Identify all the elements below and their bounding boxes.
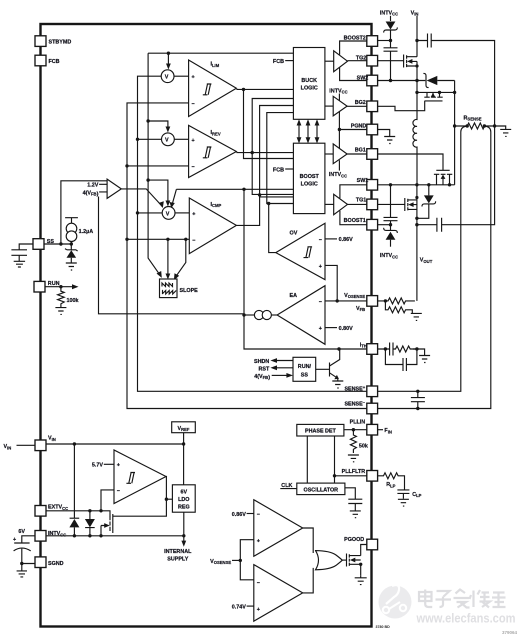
node SW2 bootstrap bbox=[389, 79, 392, 82]
pin BOOST1 bbox=[344, 218, 378, 230]
node ICMP riser crossing bbox=[258, 193, 261, 196]
svg-text:CLP: CLP bbox=[412, 492, 421, 498]
label FCB boost bbox=[273, 167, 293, 173]
wire SS row bbox=[44, 243, 71, 245]
node EA branch bbox=[242, 188, 245, 191]
svg-text:LOGIC: LOGIC bbox=[301, 86, 318, 92]
pin VIN bbox=[35, 436, 56, 451]
buffer min selector bbox=[83, 179, 122, 198]
svg-text:VOSENSE: VOSENSE bbox=[344, 293, 365, 299]
wire pgood high plus bbox=[240, 540, 254, 580]
transistor M2 BG2 switch bbox=[378, 92, 443, 110]
driver TG1 bbox=[325, 194, 367, 214]
node RSENSE kelvin left bbox=[466, 124, 469, 127]
resistor RSENSE bbox=[455, 115, 494, 129]
svg-text:ITH: ITH bbox=[360, 342, 367, 348]
node M5 drain bbox=[415, 196, 418, 199]
svg-text:+: + bbox=[192, 138, 195, 144]
node VIN diode column bbox=[73, 442, 76, 445]
pin BG1 bbox=[355, 148, 378, 160]
wire kelvin SENSE+ bbox=[378, 126, 468, 391]
wire buck-boost arrow 3 bbox=[315, 119, 320, 143]
label 0.86V OV threshold bbox=[325, 237, 353, 243]
source V offset ICMP bbox=[138, 207, 190, 220]
wire gate to mosfet bbox=[342, 559, 347, 561]
node SW1 M3 source bbox=[448, 183, 451, 186]
label 4VFB arrow bbox=[254, 373, 293, 381]
svg-text:379064: 379064 bbox=[502, 630, 518, 635]
pin TG1 bbox=[356, 198, 378, 210]
svg-text:SS: SS bbox=[301, 373, 309, 379]
node SENSE- bus IREV tap bbox=[125, 164, 128, 167]
svg-text:−: − bbox=[257, 580, 260, 586]
label CLK bbox=[280, 483, 297, 489]
svg-text:ILIM: ILIM bbox=[211, 62, 220, 68]
node VOSENSE divider tap bbox=[384, 299, 387, 302]
svg-text:6V: 6V bbox=[18, 529, 25, 535]
pin BOOST2 bbox=[344, 35, 378, 46]
svg-text:PGND: PGND bbox=[351, 124, 367, 130]
node M1 source bbox=[415, 64, 418, 67]
node VOSENSE pgood bbox=[239, 559, 242, 562]
resistor VOSENSE bottom (to GND) bbox=[385, 301, 412, 314]
svg-text:0.74V: 0.74V bbox=[232, 605, 246, 611]
wire VOUT column bbox=[416, 185, 418, 301]
node arrow feed ILIM bbox=[167, 52, 170, 55]
svg-text:0.80V: 0.80V bbox=[339, 326, 353, 332]
driver BG1 bbox=[325, 130, 367, 179]
driver TG2 bbox=[325, 51, 367, 72]
svg-text:RUN/: RUN/ bbox=[298, 364, 312, 370]
pin PLLFLTR bbox=[342, 469, 378, 481]
label RST arrow bbox=[259, 365, 293, 372]
svg-text:BUCK: BUCK bbox=[301, 78, 317, 84]
svg-text:ICMP: ICMP bbox=[211, 202, 222, 208]
svg-text:VIN: VIN bbox=[48, 436, 56, 443]
label VOSENSE pgood bbox=[210, 559, 240, 565]
op-amp IREV comparator bbox=[189, 125, 237, 177]
label 0.74V pgood bbox=[232, 605, 254, 611]
pin SENSE- bbox=[344, 400, 377, 414]
svg-text:INTVCC: INTVCC bbox=[329, 172, 347, 178]
svg-text:INTVCC: INTVCC bbox=[380, 10, 398, 16]
node slope right tap bbox=[184, 238, 187, 241]
svg-text:PLLIN: PLLIN bbox=[350, 419, 366, 425]
capacitor VIN bypass bbox=[417, 34, 495, 127]
svg-text:VIN: VIN bbox=[411, 10, 419, 16]
ground ITH network bbox=[419, 356, 430, 363]
wire ILIM output row bbox=[236, 88, 293, 90]
node PLLFLTR tap bbox=[333, 474, 336, 477]
capacitor bootstrap 1 bbox=[384, 185, 398, 225]
svg-text:+: + bbox=[319, 264, 322, 270]
wire ICMP feedback row bbox=[176, 188, 293, 190]
node ILIM out bbox=[242, 88, 245, 91]
label INTVCC top bbox=[380, 10, 398, 21]
transistor EXTVCC switch bbox=[101, 477, 166, 536]
wire arrow N into ICMP source bbox=[148, 180, 170, 206]
wire BUCK-BOOST link L2 bbox=[260, 106, 294, 197]
wire BUCK-BOOST link L1 bbox=[252, 99, 293, 195]
svg-text:FCB: FCB bbox=[273, 59, 284, 65]
transistor M1 TG2 switch bbox=[378, 41, 417, 81]
capacitor oscillator bbox=[348, 499, 362, 511]
ground RSENSE bbox=[495, 126, 512, 136]
pin VOSENSE bbox=[344, 293, 377, 312]
wire PLLFLTR row bbox=[335, 475, 367, 477]
resistor VOSENSE top (to VOUT) bbox=[378, 298, 415, 304]
node SW1 column bbox=[415, 183, 418, 186]
SECTION: right pin column bbox=[342, 35, 378, 549]
wire VIN diode column bbox=[73, 444, 75, 518]
svg-text:VFB: VFB bbox=[356, 306, 365, 312]
wire IREV output row bbox=[236, 152, 293, 154]
block BOOST LOGIC bbox=[293, 143, 325, 213]
node SENSE- bus ICMP tap bbox=[125, 238, 128, 241]
wire EA to ITH bbox=[244, 189, 367, 349]
svg-text:−: − bbox=[192, 238, 195, 244]
svg-text:5.7V: 5.7V bbox=[92, 463, 103, 469]
node VOUT cap tap bbox=[415, 223, 418, 226]
wire PHASE DET to PLLIN bbox=[344, 429, 367, 431]
op-amp OV comparator bbox=[276, 223, 325, 279]
node SENSE+ bus IREV tap bbox=[136, 138, 139, 141]
capacitor VOUT bbox=[417, 126, 495, 232]
block SLOPE bbox=[160, 279, 199, 298]
chip boundary bbox=[41, 24, 372, 627]
pin EXTVCC bbox=[35, 505, 68, 516]
svg-text:FCB: FCB bbox=[49, 59, 60, 65]
label 0.80V EA reference bbox=[325, 326, 353, 332]
svg-text:LOGIC: LOGIC bbox=[301, 182, 318, 188]
node INTVCC mosfet source bbox=[99, 534, 102, 537]
svg-text:EXTVCC: EXTVCC bbox=[48, 505, 68, 512]
node M2 row right bbox=[453, 91, 456, 94]
wire arrow into ILIM source bbox=[166, 53, 171, 69]
svg-text:STBYMD: STBYMD bbox=[49, 40, 72, 46]
transistor Q RUN/SS bbox=[316, 349, 340, 381]
ground PGOOD mosfet bbox=[355, 575, 367, 584]
node slope bus tap upper bbox=[146, 119, 149, 122]
arrow internal supply bbox=[164, 536, 192, 563]
watermark logo circle bbox=[379, 585, 412, 618]
node INTVCC vin diode bbox=[73, 534, 76, 537]
wire kelvin SENSE- bbox=[378, 126, 491, 409]
pin PGND bbox=[351, 124, 378, 135]
transistor M5 TG1 switch bbox=[378, 198, 417, 211]
wire SS loop to buffer bbox=[61, 181, 107, 244]
svg-text:−: − bbox=[319, 299, 322, 305]
node 50k tap bbox=[352, 428, 355, 431]
pin ITH bbox=[360, 342, 378, 354]
node slope bus tap lower bbox=[146, 178, 149, 181]
wire IREV minus row bbox=[127, 165, 189, 167]
svg-text:FIN: FIN bbox=[384, 428, 391, 434]
op-amp 5.7V comparator bbox=[92, 450, 166, 504]
wire SW2 rail bbox=[340, 67, 367, 80]
node SW1 diode tap bbox=[427, 183, 430, 186]
transistor PGOOD mosfet bbox=[347, 545, 367, 576]
wire D2 column bbox=[454, 81, 456, 185]
node BOOST1 bootstrap bbox=[389, 223, 392, 226]
svg-text:+: + bbox=[13, 537, 16, 543]
svg-text:−: − bbox=[319, 237, 322, 243]
op-amp ILIM comparator bbox=[189, 60, 237, 117]
node SENSE+ bus ICMP tap bbox=[136, 211, 139, 214]
ground 50k bbox=[348, 455, 359, 462]
pin INTVCC bbox=[35, 531, 66, 542]
svg-text:LDO: LDO bbox=[178, 497, 189, 503]
label 0.86V pgood bbox=[232, 512, 254, 518]
node INTVCC extvcc diode bbox=[88, 534, 91, 537]
node M2 row left bbox=[415, 91, 418, 94]
gate PGOOD nor bbox=[316, 551, 343, 570]
svg-text:+: + bbox=[192, 211, 195, 217]
svg-text:V: V bbox=[165, 75, 169, 81]
arrowhead slope left bbox=[157, 271, 162, 278]
svg-text:PLLFLTR: PLLFLTR bbox=[342, 469, 366, 475]
wire LDO riser bbox=[183, 444, 185, 485]
node RSENSE left bbox=[453, 124, 456, 127]
op-amp ICMP comparator bbox=[189, 198, 236, 254]
wire PGND row bbox=[339, 129, 366, 131]
pin SW1 bbox=[357, 178, 378, 190]
svg-text:FCB: FCB bbox=[273, 167, 284, 173]
svg-text:0.86V: 0.86V bbox=[339, 237, 353, 243]
wire arrow NW into ICMP source (from buffer) bbox=[121, 189, 164, 208]
svg-text:+: + bbox=[192, 75, 195, 81]
wire BOOST2 row right bbox=[378, 40, 391, 42]
wire slope mid arrow bbox=[166, 239, 171, 279]
ground under zener bbox=[66, 263, 77, 270]
node VREF riser bbox=[182, 442, 185, 445]
svg-text:VREF: VREF bbox=[178, 426, 190, 432]
pin TG2 bbox=[356, 55, 378, 66]
wire phase det to oscillator left bbox=[306, 436, 308, 483]
wire arrow NE into ICMP source bbox=[170, 189, 177, 208]
svg-text:EA: EA bbox=[290, 293, 298, 299]
wire RUN arrow bbox=[45, 284, 79, 289]
wire VIN row bbox=[46, 443, 184, 445]
wire SW1 rail bbox=[340, 185, 367, 199]
ground oscillator bbox=[350, 511, 361, 518]
svg-text:INTVCC: INTVCC bbox=[380, 253, 398, 259]
node L1 crosses IREV out bbox=[251, 151, 254, 154]
svg-text:BOOST1: BOOST1 bbox=[344, 218, 366, 224]
wire buck-boost arrow 2 bbox=[306, 119, 311, 143]
svg-text:REG: REG bbox=[178, 505, 190, 511]
diode schottky D2 across M2 bbox=[423, 73, 437, 87]
block OSCILLATOR bbox=[297, 483, 345, 495]
node INTVCC internal supply bbox=[182, 534, 185, 537]
source V offset IREV bbox=[138, 133, 189, 146]
capacitor bootstrap 2 bbox=[384, 41, 398, 81]
wire pgood low output bbox=[303, 568, 314, 593]
current mirror EA output bbox=[244, 310, 277, 319]
wire BOOST1 row right bbox=[378, 224, 391, 226]
resistor RLP bbox=[378, 473, 405, 490]
svg-text:V: V bbox=[165, 138, 169, 144]
wire comparator minus loop bbox=[101, 490, 114, 511]
svg-text:RLP: RLP bbox=[386, 482, 395, 488]
svg-text:BG1: BG1 bbox=[355, 148, 366, 154]
capacitor sense filter bbox=[411, 390, 425, 411]
svg-text:VOUT: VOUT bbox=[420, 258, 433, 264]
pin SS bbox=[33, 239, 54, 250]
wire ICMP output riser bbox=[236, 197, 259, 226]
node PGND rail bbox=[338, 128, 341, 131]
svg-text:RSENSE: RSENSE bbox=[464, 115, 482, 121]
svg-text:SLOPE: SLOPE bbox=[180, 288, 199, 294]
pin BG2 bbox=[355, 100, 378, 112]
node ITH transistor tap bbox=[337, 347, 340, 350]
ground under 100k bbox=[55, 308, 66, 315]
capacitor CLP bbox=[397, 490, 421, 499]
VIN external label bbox=[4, 444, 36, 451]
driver BG2 bbox=[325, 88, 367, 129]
node BOOST2 bootstrap bbox=[389, 39, 392, 42]
wire oscillator ground branch bbox=[345, 488, 355, 499]
diode schottky INTVCC to BOOST2 bbox=[384, 22, 398, 41]
block BUCK LOGIC bbox=[293, 48, 325, 120]
node slope mid tap bbox=[166, 238, 169, 241]
label SHDN arrow bbox=[254, 358, 293, 365]
label FIN bbox=[378, 428, 392, 434]
svg-text:TG1: TG1 bbox=[356, 198, 366, 204]
svg-text:INTVCC: INTVCC bbox=[48, 531, 66, 538]
wire arrow into IREV source bbox=[148, 121, 170, 133]
pin PGOOD bbox=[344, 537, 377, 550]
node VOUT cap tap upper bbox=[415, 217, 418, 220]
current source 1.2uA bbox=[65, 218, 93, 244]
pin SENSE+ bbox=[344, 385, 377, 397]
svg-text:SGND: SGND bbox=[48, 561, 64, 567]
svg-text:PHASE DET: PHASE DET bbox=[305, 429, 337, 435]
svg-text:+: + bbox=[257, 607, 260, 613]
wire slope right arrow bbox=[174, 239, 186, 280]
svg-text:V: V bbox=[166, 211, 170, 217]
svg-text:1.2V: 1.2V bbox=[87, 183, 98, 189]
node ITH branch join bbox=[415, 347, 418, 350]
svg-text:OV: OV bbox=[290, 231, 298, 237]
wire top row to BUCK logic bbox=[148, 52, 293, 54]
svg-text:−: − bbox=[117, 489, 120, 495]
node SW1 bootstrap bbox=[389, 183, 392, 186]
svg-text:6V: 6V bbox=[181, 490, 188, 496]
block PHASE DET bbox=[297, 424, 344, 436]
svg-text:BOOST: BOOST bbox=[300, 174, 320, 180]
op-amp PGOOD comparator low bbox=[254, 565, 303, 622]
node SS loop bbox=[59, 242, 62, 245]
wire OV plus to VOSENSE bbox=[325, 265, 337, 301]
svg-text:1.2µA: 1.2µA bbox=[79, 229, 94, 235]
transistor M3 BG1 switch bbox=[434, 170, 452, 185]
ground 6V cap bbox=[17, 571, 27, 577]
resistor ITH Rc bbox=[393, 346, 417, 352]
wire SENSE- bus bbox=[127, 103, 367, 409]
svg-text:INTERNAL: INTERNAL bbox=[164, 549, 192, 555]
wire ICMP minus row bbox=[127, 238, 189, 240]
svg-text:SENSE−: SENSE− bbox=[344, 400, 365, 408]
label FCB buck bbox=[273, 59, 293, 65]
svg-text:−: − bbox=[192, 102, 195, 108]
pin FCB bbox=[35, 55, 60, 66]
svg-text:SHDN: SHDN bbox=[254, 359, 269, 365]
svg-text:VIN: VIN bbox=[4, 444, 12, 451]
pin PLLIN bbox=[350, 419, 378, 435]
svg-text:PGOOD: PGOOD bbox=[344, 537, 364, 543]
svg-text:100k: 100k bbox=[67, 298, 79, 304]
svg-text:RST: RST bbox=[259, 366, 270, 372]
wire BOOST1 rail bbox=[340, 211, 367, 225]
svg-text:+: + bbox=[257, 538, 260, 544]
wire OV output riser bbox=[269, 204, 276, 253]
capacitor ITH parallel C bbox=[385, 349, 417, 371]
node OV riser bbox=[267, 202, 270, 205]
wire INTVCC row bbox=[46, 535, 184, 537]
svg-text:SUPPLY: SUPPLY bbox=[167, 556, 188, 562]
capacitor 6V external on INTVCC bbox=[13, 529, 35, 571]
wire LDO to INTVCC row bbox=[183, 512, 185, 536]
diode D3 bbox=[417, 185, 436, 218]
svg-text:50k: 50k bbox=[359, 443, 368, 449]
wire pgood high output bbox=[303, 528, 314, 553]
wire BOOST2 rail bbox=[340, 41, 367, 55]
svg-text:INTVCC: INTVCC bbox=[329, 88, 347, 94]
pin SGND bbox=[35, 557, 64, 568]
pin SW2 bbox=[357, 75, 378, 86]
wire slope bus bbox=[148, 53, 161, 276]
svg-text:www.elecfans.com: www.elecfans.com bbox=[416, 611, 516, 626]
block 6V LDO REG bbox=[172, 485, 195, 512]
wire SENSE+ bus bbox=[138, 76, 367, 391]
op-amp PGOOD comparator high bbox=[254, 500, 303, 557]
svg-text:+: + bbox=[117, 463, 120, 469]
svg-text:BG2: BG2 bbox=[355, 100, 366, 106]
node comparator output to LDO bbox=[165, 498, 168, 501]
block RUN SS bbox=[293, 357, 316, 381]
svg-text:+: + bbox=[319, 326, 322, 332]
node PGOOD mosfet source bbox=[359, 563, 362, 566]
label VIN top bbox=[411, 10, 419, 40]
ground transistor emitter bbox=[332, 381, 343, 388]
source V offset ILIM bbox=[161, 70, 188, 83]
node SS clamp bbox=[70, 242, 73, 245]
capacitor ITH series C bbox=[378, 343, 393, 356]
wire SW1 row bbox=[378, 184, 455, 186]
op-amp EA error amp bbox=[277, 286, 325, 345]
svg-text:IREV: IREV bbox=[211, 130, 221, 136]
block VREF bbox=[172, 422, 196, 444]
wire M2 drain row bbox=[417, 91, 455, 93]
watermark chinese text bbox=[419, 590, 506, 608]
node EXTVCC mosfet tap bbox=[99, 509, 102, 512]
capacitor soft-start external bbox=[11, 244, 33, 267]
wire 4(VFB) riser to EA row bbox=[99, 197, 245, 314]
node SW2 column bbox=[415, 79, 418, 82]
svg-text:0.86V: 0.86V bbox=[232, 512, 246, 518]
svg-text:SW1: SW1 bbox=[357, 178, 369, 184]
ground CLP bbox=[398, 499, 409, 506]
wire EA minus row to VOSENSE pin bbox=[325, 300, 367, 302]
wire phase det to oscillator right bbox=[334, 436, 336, 483]
wire EXTVCC row bbox=[46, 511, 110, 517]
zener diode SS clamp bbox=[65, 244, 78, 263]
node VIN cap tap bbox=[415, 39, 418, 42]
node EA mirror row bbox=[242, 313, 245, 316]
SECTION: watermark bbox=[379, 585, 516, 625]
svg-text:−: − bbox=[257, 512, 260, 518]
